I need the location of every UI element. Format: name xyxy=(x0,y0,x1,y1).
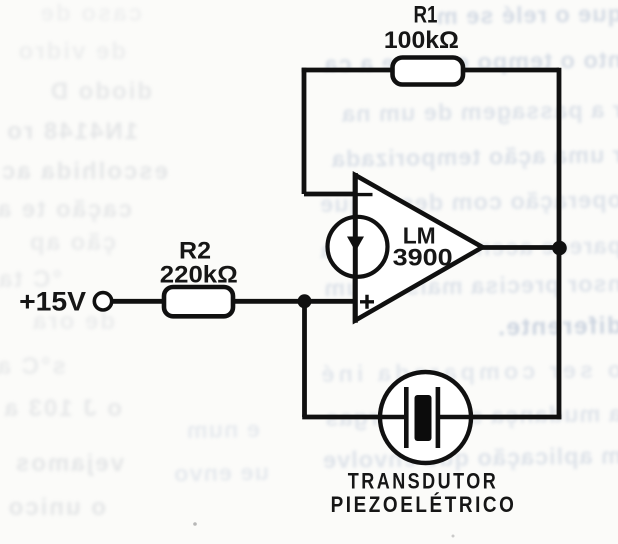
wire noninverting input xyxy=(112,299,357,304)
bleed-through text right column (mirrored) xyxy=(160,2,618,33)
resistor R1 xyxy=(393,58,464,85)
wire right vertical xyxy=(557,68,562,420)
svg-text:3900: 3900 xyxy=(393,245,453,272)
current source line xyxy=(353,173,358,323)
wire output xyxy=(480,245,559,250)
bleed-through text left column (mirrored) xyxy=(0,2,142,26)
transducer circle xyxy=(380,372,471,463)
node output junction xyxy=(552,241,567,256)
svg-text:R2: R2 xyxy=(179,238,211,265)
current source arrowhead xyxy=(347,237,364,252)
transducer right lead inside xyxy=(438,415,471,420)
node noninverting junction xyxy=(298,294,312,308)
wire top-right (R1 right lead) xyxy=(463,68,559,73)
svg-text:100kΩ: 100kΩ xyxy=(384,27,459,54)
minus sign xyxy=(356,193,373,196)
wire top-left (R1 left lead) xyxy=(302,68,393,73)
transducer left lead inside xyxy=(380,415,406,420)
speck xyxy=(193,522,197,526)
svg-text:+15V: +15V xyxy=(19,287,86,317)
svg-text:PIEZOELÉTRICO: PIEZOELÉTRICO xyxy=(331,493,517,518)
wire bottom-left vertical xyxy=(302,301,307,417)
transducer right plate xyxy=(436,387,441,448)
wire left feedback vertical xyxy=(302,68,307,194)
svg-text:220kΩ: 220kΩ xyxy=(160,262,238,289)
wire bottom horizontal right segment xyxy=(438,415,561,420)
input terminal xyxy=(94,293,111,310)
plus sign xyxy=(360,295,374,309)
transducer left plate xyxy=(404,387,409,448)
wire bottom horizontal left segment xyxy=(302,415,406,420)
svg-text:TRANSDUTOR: TRANSDUTOR xyxy=(348,470,498,494)
transducer crystal xyxy=(415,395,432,441)
speck xyxy=(452,535,455,538)
op-amp U1 xyxy=(355,175,483,321)
resistor R2 xyxy=(164,287,233,316)
current source circle xyxy=(328,217,388,277)
wire inverting input xyxy=(304,192,356,197)
svg-text:R1: R1 xyxy=(414,2,438,29)
